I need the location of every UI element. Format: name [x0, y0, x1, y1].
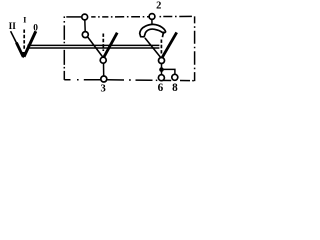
- svg-text:II: II: [9, 22, 17, 32]
- svg-text:0: 0: [33, 23, 38, 33]
- svg-text:8: 8: [172, 82, 178, 94]
- svg-text:6: 6: [158, 82, 164, 94]
- svg-text:3: 3: [101, 83, 106, 94]
- svg-text:2: 2: [156, 1, 161, 12]
